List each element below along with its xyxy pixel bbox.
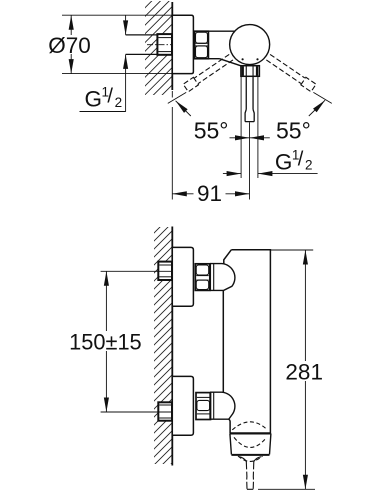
dim 150±15: extension lines bbox=[101, 270, 172, 272]
centerline (top view pipe axis) bbox=[147, 44, 178, 46]
lower escutcheon (front) bbox=[172, 376, 193, 435]
dim Ø70: dimension line and arrows bbox=[70, 15, 72, 73]
svg-text:/: / bbox=[298, 148, 304, 170]
upper pipe nut behind wall (front) bbox=[158, 262, 172, 280]
connector cylinder (top view) bbox=[208, 30, 234, 32]
upper escutcheon (front) bbox=[172, 247, 193, 306]
wall hatching (front view) bbox=[140, 195, 192, 492]
lower union nut (front) bbox=[196, 393, 211, 420]
svg-text:281: 281 bbox=[285, 359, 323, 384]
upper joint collar line bbox=[213, 264, 215, 291]
lower joint collar line bbox=[213, 392, 215, 419]
55deg angled line right bbox=[313, 92, 331, 103]
lever stem (top view) bbox=[245, 76, 247, 109]
lever edge extension lines bbox=[240, 77, 242, 178]
svg-text:91: 91 bbox=[197, 181, 222, 206]
svg-text:55°: 55° bbox=[276, 117, 311, 143]
hidden dashed arcs in outlet bbox=[232, 422, 267, 430]
55deg angled line left bbox=[168, 92, 186, 103]
supply pipe (top view) bbox=[126, 34, 158, 36]
svg-text:2: 2 bbox=[115, 95, 123, 110]
pin dots under ball bbox=[242, 58, 244, 60]
lower pipe nut behind wall (front) bbox=[158, 402, 172, 420]
svg-text:G: G bbox=[85, 87, 103, 112]
svg-text:150±15: 150±15 bbox=[69, 329, 142, 354]
upper union nut (front) bbox=[195, 264, 210, 291]
lever collar (top view) bbox=[241, 66, 260, 77]
lower S-union joint (front) bbox=[210, 392, 235, 419]
union nut (top view) bbox=[195, 31, 209, 59]
G1/2 leader underline (top) bbox=[80, 111, 126, 113]
55deg extension line (left, from wall) bbox=[171, 91, 173, 98]
aerator cup bbox=[230, 433, 271, 454]
svg-text:G: G bbox=[275, 149, 293, 174]
dashed lever swung right 55deg bbox=[266, 53, 316, 91]
svg-text:Ø70: Ø70 bbox=[48, 33, 91, 58]
svg-text:55°: 55° bbox=[194, 117, 229, 143]
upper S-union joint (front) bbox=[210, 264, 235, 291]
dim 281: extension lines bbox=[270, 249, 313, 251]
55deg leader arrow left bbox=[176, 101, 191, 116]
dim 150±15: dimension line bbox=[105, 271, 107, 412]
dim Ø70: extension lines bbox=[62, 14, 172, 16]
seam line body/cup bbox=[230, 432, 271, 434]
55deg leader arrow right bbox=[309, 100, 325, 116]
lever grip tip bbox=[245, 110, 254, 122]
outlet nipple bottom bbox=[247, 488, 253, 490]
mixer body ball (top view) bbox=[230, 25, 270, 65]
wall line (front view) bbox=[171, 227, 173, 466]
escutcheon flange (top view) bbox=[172, 15, 193, 73]
G1/2 text (top) bbox=[85, 85, 123, 112]
outlet nipple sides bbox=[245, 461, 248, 489]
pipe hex nut behind wall (top view) bbox=[157, 34, 172, 55]
dim G1/2 (supply): vertical line and arrows bbox=[125, 15, 127, 35]
lever center extension line bbox=[249, 122, 251, 199]
wall hatching (top view) bbox=[131, 0, 185, 126]
G1/2 text (outlet) bbox=[275, 147, 313, 174]
outlet nipple shoulders bbox=[239, 457, 261, 462]
dim 91 bbox=[172, 193, 249, 195]
dim Ø70 text bbox=[47, 35, 92, 54]
dim 281: dimension line bbox=[304, 250, 306, 489]
svg-text:2: 2 bbox=[305, 158, 313, 173]
svg-text:/: / bbox=[107, 86, 113, 108]
body outline (front) bbox=[223, 250, 270, 433]
dashed lever swung left 55deg bbox=[183, 53, 233, 91]
wall line (top view) bbox=[171, 2, 173, 90]
dim G1/2 (outlet): arrows bbox=[223, 173, 241, 175]
55deg converging arrows bbox=[230, 137, 250, 139]
